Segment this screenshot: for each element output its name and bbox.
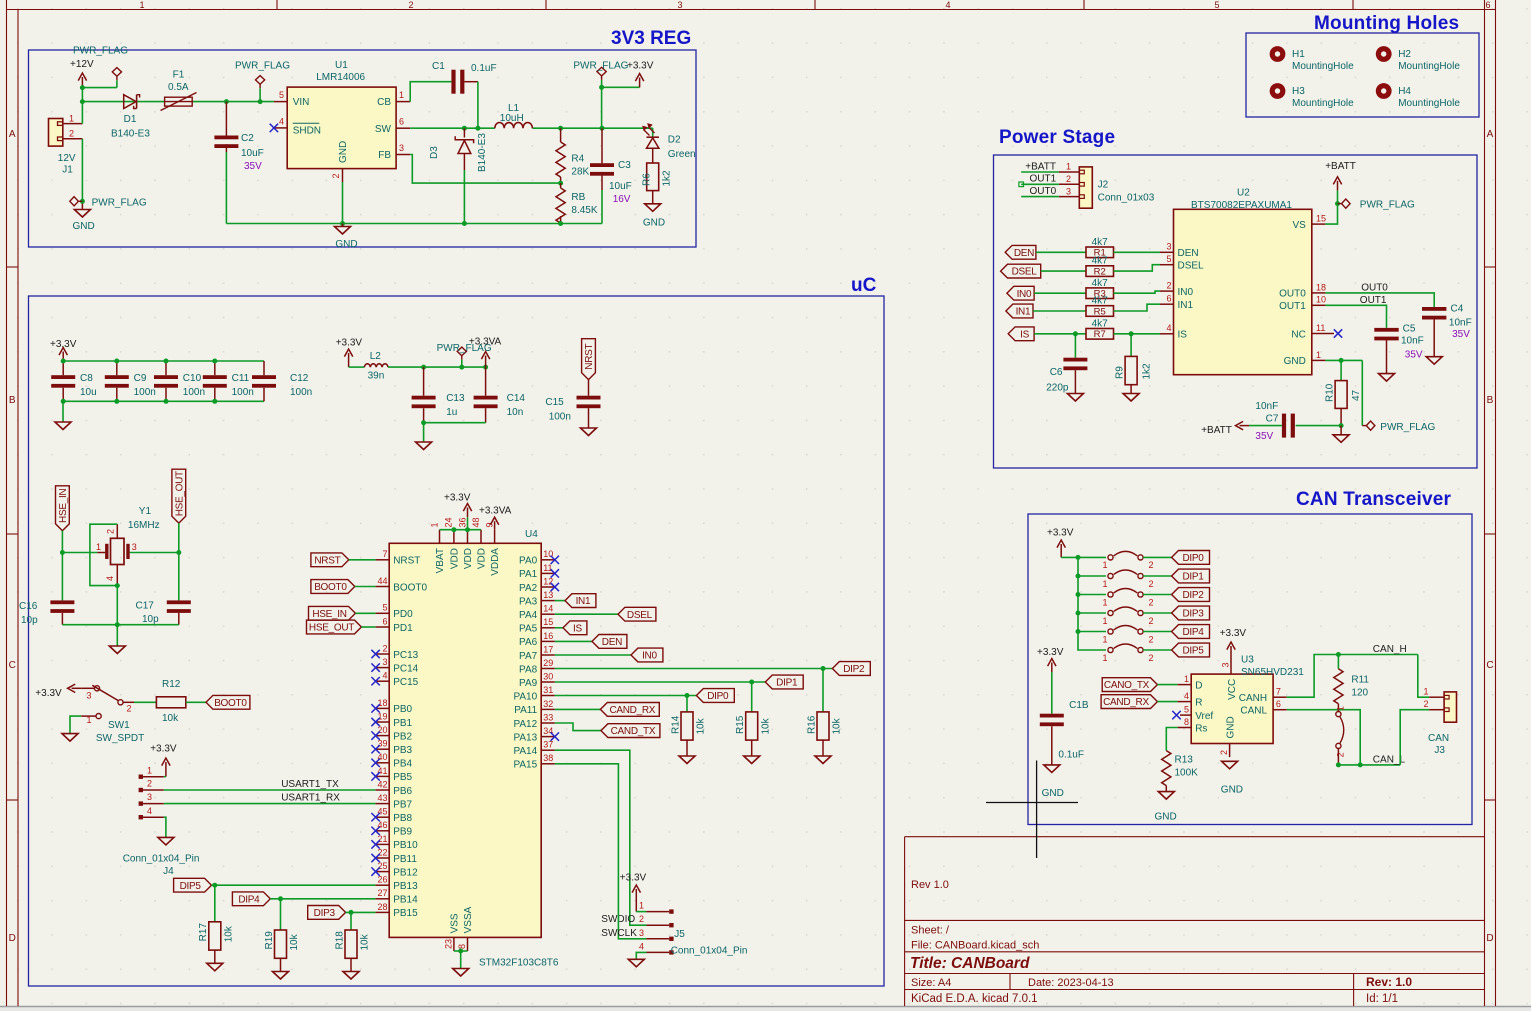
U4 pin PA13 34 [541, 736, 555, 738]
ground under R9 [1123, 394, 1139, 402]
svg-text:+3.3V: +3.3V [627, 60, 654, 71]
svg-text:BOOT0: BOOT0 [393, 582, 427, 593]
svg-text:R6: R6 [641, 173, 652, 186]
svg-text:7: 7 [1276, 687, 1281, 697]
svg-text:48: 48 [471, 517, 481, 527]
power flag PF1 [112, 68, 121, 77]
svg-text:22: 22 [377, 847, 387, 857]
hier label DIP5 [174, 878, 212, 892]
svg-text:5: 5 [1184, 704, 1189, 714]
svg-text:PA8: PA8 [519, 664, 538, 675]
svg-text:7: 7 [382, 549, 387, 559]
hier label HSE_OUT vertical [172, 469, 186, 523]
svg-text:J5: J5 [674, 929, 685, 940]
svg-text:C10: C10 [183, 373, 202, 384]
svg-text:10k: 10k [696, 717, 707, 734]
junction [458, 949, 463, 954]
svg-text:1: 1 [1102, 616, 1107, 626]
svg-text:Date: 2023-04-13: Date: 2023-04-13 [1028, 977, 1114, 989]
title block outline [904, 837, 906, 1006]
svg-text:1: 1 [69, 114, 74, 124]
junction C2 tap [224, 99, 229, 104]
U4 pin PB11 22 [376, 857, 390, 859]
wire R7 to U2 IS [1114, 333, 1161, 335]
wire to DIP3 [1143, 612, 1172, 614]
power flag PF4 [597, 67, 606, 76]
svg-text:10k: 10k [760, 717, 771, 734]
svg-text:2: 2 [1219, 750, 1229, 755]
svg-text:C1: C1 [432, 61, 445, 72]
ground under U4 [460, 951, 462, 969]
zener diode D3 [463, 128, 465, 137]
svg-text:2: 2 [1149, 597, 1154, 607]
svg-text:16MHz: 16MHz [128, 520, 160, 531]
svg-text:2: 2 [69, 129, 74, 139]
wire SW1 gnd [70, 716, 81, 734]
svg-text:USART1_TX: USART1_TX [281, 779, 339, 790]
wire L2 input [349, 366, 365, 368]
svg-text:VBAT: VBAT [435, 548, 446, 573]
svg-text:6: 6 [399, 117, 404, 127]
svg-text:FB: FB [378, 150, 391, 161]
svg-text:GND: GND [338, 141, 349, 163]
svg-text:GND: GND [1221, 784, 1243, 795]
ground under R15 [744, 756, 760, 764]
junction C3 top [600, 126, 605, 131]
svg-text:1: 1 [1423, 687, 1428, 697]
wire SW rail [410, 127, 495, 129]
junction [1335, 201, 1340, 206]
svg-text:C4: C4 [1451, 304, 1464, 315]
svg-text:2: 2 [1149, 579, 1154, 589]
hier label DIP0 [1172, 551, 1210, 565]
svg-text:HSE_IN: HSE_IN [58, 489, 69, 523]
ground under J5 [628, 959, 644, 967]
svg-text:PWR_FLAG: PWR_FLAG [92, 198, 147, 209]
wire to DIP2 [1143, 594, 1172, 596]
hier label IS [563, 621, 587, 635]
svg-text:2: 2 [1149, 560, 1154, 570]
svg-text:C1B: C1B [1069, 700, 1089, 711]
svg-text:KiCad E.D.A. kicad 7.0.1: KiCad E.D.A. kicad 7.0.1 [911, 993, 1038, 1005]
wire PA15 SWCLK [555, 764, 647, 939]
svg-text:SWCLK: SWCLK [601, 928, 637, 939]
crystal Y1 [98, 552, 106, 554]
wire dip bank bus [1061, 556, 1106, 558]
wire BOOT0 [355, 586, 376, 588]
svg-text:DIP4: DIP4 [1182, 627, 1204, 638]
svg-text:PWR_FLAG: PWR_FLAG [235, 60, 290, 71]
U4 pin PB6 42 [376, 789, 390, 791]
svg-text:5: 5 [279, 90, 284, 100]
wire R2 to U2 DSEL [1114, 265, 1161, 271]
svg-text:32: 32 [543, 699, 553, 709]
wire PA6 DEN [555, 640, 592, 642]
svg-text:17: 17 [543, 644, 553, 654]
svg-text:21: 21 [377, 834, 387, 844]
ground under R17 [207, 963, 223, 971]
svg-text:PB12: PB12 [393, 867, 418, 878]
hier label DEN [592, 635, 627, 649]
resistor R11 [1337, 655, 1339, 669]
U3 pin VCC 3 [1230, 661, 1232, 675]
U4 pin PC14 3 [376, 667, 390, 669]
junction [451, 527, 456, 532]
svg-text:R10: R10 [1324, 383, 1335, 402]
wire PA3 IN1 [555, 600, 565, 602]
svg-text:10k: 10k [832, 717, 843, 734]
hier label IS [1008, 327, 1034, 341]
svg-text:DIP4: DIP4 [238, 894, 260, 905]
junction D3 top [462, 126, 467, 131]
junction C14 [483, 365, 488, 370]
svg-text:PA7: PA7 [519, 651, 538, 662]
svg-text:PA2: PA2 [519, 583, 538, 594]
svg-text:NRST: NRST [584, 344, 595, 370]
svg-text:PB4: PB4 [393, 759, 412, 770]
svg-text:45: 45 [377, 807, 387, 817]
svg-text:40: 40 [377, 752, 387, 762]
hier label IN1 [565, 594, 596, 608]
svg-text:1: 1 [86, 715, 91, 725]
svg-text:PB9: PB9 [393, 827, 412, 838]
wire CANH to CAN_H rail [1287, 655, 1418, 698]
U4 pin PB2 20 [376, 735, 390, 737]
svg-text:2: 2 [1423, 699, 1428, 709]
svg-text:2: 2 [1149, 653, 1154, 663]
svg-text:1: 1 [1102, 579, 1107, 589]
resistor R17 [214, 885, 216, 922]
hier label DEN [1005, 245, 1036, 259]
svg-text:220p: 220p [1046, 383, 1069, 394]
svg-text:13: 13 [543, 590, 553, 600]
svg-text:BOOT0: BOOT0 [314, 582, 347, 593]
wire J2 pin2 OUT1 [1021, 183, 1059, 185]
hier label DIP0 [696, 689, 734, 703]
svg-text:BTS70082EPAXUMA1: BTS70082EPAXUMA1 [1191, 200, 1292, 211]
U3 pin R 4 [1178, 701, 1192, 703]
svg-text:Conn_01x03: Conn_01x03 [1098, 193, 1155, 204]
U4 pin PB15 28 [376, 911, 390, 913]
capacitor C8 [62, 361, 64, 375]
driver U2 BTS7008 [1174, 209, 1312, 374]
svg-text:CAND_RX: CAND_RX [1103, 697, 1149, 708]
ground under R14 [679, 756, 695, 764]
svg-text:35V: 35V [1452, 329, 1470, 340]
svg-text:IS: IS [1178, 330, 1188, 341]
U4 pin PA5 15 [541, 627, 555, 629]
svg-text:C9: C9 [134, 373, 147, 384]
junction PF5 [459, 365, 464, 370]
power flag PF3 at J1 gnd [70, 197, 79, 206]
svg-text:SW1: SW1 [108, 720, 130, 731]
svg-text:C3: C3 [618, 160, 631, 171]
capacitor C11 [214, 361, 216, 375]
svg-text:U4: U4 [525, 529, 538, 540]
hier label IN1 [1006, 304, 1033, 318]
capacitor C5 [1374, 328, 1398, 332]
U2 pin DEN 3 [1160, 251, 1174, 253]
svg-text:STM32F103C8T6: STM32F103C8T6 [479, 958, 559, 969]
svg-text:10uH: 10uH [500, 113, 524, 124]
svg-text:10k: 10k [289, 933, 300, 950]
svg-text:PC14: PC14 [393, 663, 418, 674]
wire main 12V rail [82, 101, 164, 103]
svg-text:R19: R19 [264, 931, 275, 950]
svg-text:R18: R18 [334, 931, 345, 950]
svg-text:IN0: IN0 [1017, 289, 1032, 300]
mcu U4 STM32F103C8T6 [389, 543, 541, 937]
svg-text:OUT1: OUT1 [1279, 301, 1306, 312]
svg-text:Rs: Rs [1195, 723, 1207, 734]
svg-text:4: 4 [1184, 691, 1189, 701]
U2 pin DSEL 5 [1160, 264, 1174, 266]
svg-text:R2: R2 [1094, 267, 1106, 278]
wire CAND_RX to R [1157, 701, 1177, 703]
svg-text:44: 44 [377, 576, 387, 586]
wire CANO_TX to D [1157, 684, 1177, 686]
svg-text:3: 3 [1220, 662, 1230, 667]
ground under U3 [1222, 761, 1238, 769]
svg-text:PB14: PB14 [393, 895, 418, 906]
svg-text:14: 14 [543, 604, 553, 614]
U4 pin PB12 25 [376, 871, 390, 873]
svg-text:VSS: VSS [449, 913, 460, 933]
junction C6 tap [1073, 331, 1078, 336]
U4 pin PB4 40 [376, 762, 390, 764]
hier label CAND_RX [600, 703, 659, 717]
hier label DIP1 [1172, 569, 1210, 583]
U2 pin VS 15 [1312, 223, 1326, 225]
svg-text:DIP3: DIP3 [1182, 609, 1204, 620]
U2 pin OUT1 10 [1312, 304, 1326, 306]
svg-text:100n: 100n [134, 387, 156, 398]
wire J2 pin1 +BATT [1021, 171, 1059, 173]
svg-text:PB1: PB1 [393, 718, 412, 729]
svg-text:U1: U1 [335, 60, 348, 71]
svg-text:3: 3 [1066, 186, 1071, 196]
svg-text:8: 8 [457, 944, 467, 949]
junction [1076, 611, 1081, 616]
svg-text:R9: R9 [1114, 366, 1125, 379]
svg-text:B: B [1487, 395, 1494, 406]
svg-text:PB15: PB15 [393, 908, 418, 919]
ground under C8 [62, 401, 64, 422]
switch SW DIP3 [1108, 610, 1113, 615]
wire PA4 DSEL [555, 613, 618, 615]
svg-text:H2: H2 [1398, 49, 1411, 60]
capacitor C7 [1282, 414, 1286, 438]
svg-text:HSE_IN: HSE_IN [312, 609, 346, 620]
svg-text:15: 15 [1316, 214, 1326, 224]
svg-text:PA11: PA11 [514, 705, 537, 716]
svg-text:10k: 10k [162, 713, 179, 724]
junction [61, 359, 66, 364]
svg-text:2: 2 [1335, 752, 1345, 757]
svg-text:3: 3 [639, 928, 644, 938]
svg-text:3V3 REG: 3V3 REG [611, 28, 691, 49]
power flag PF6 [1342, 199, 1351, 208]
svg-text:NC: NC [1291, 329, 1305, 340]
svg-text:2: 2 [639, 914, 644, 924]
svg-text:100K: 100K [1175, 767, 1199, 778]
junction [749, 680, 754, 685]
svg-text:10nF: 10nF [1449, 318, 1472, 329]
wire C13 C14 gnd link [424, 422, 486, 424]
junction C13 [421, 365, 426, 370]
hier label CAND_TX [601, 724, 660, 738]
svg-text:4: 4 [639, 941, 644, 951]
svg-text:3: 3 [382, 657, 387, 667]
svg-text:IS: IS [1020, 329, 1029, 340]
junction [1336, 652, 1341, 657]
U2 pin GND 1 [1312, 359, 1326, 361]
hier label HSE_OUT left [307, 620, 362, 634]
wire PA11 CAND_RX [555, 708, 601, 710]
svg-text:8: 8 [1184, 717, 1189, 727]
wire PA7 IN0 [555, 654, 631, 656]
svg-text:24: 24 [444, 517, 454, 527]
svg-text:+3.3VA: +3.3VA [479, 506, 512, 517]
resistor R9 [1130, 334, 1132, 357]
svg-text:1: 1 [139, 0, 144, 10]
svg-text:+BATT: +BATT [1025, 161, 1056, 172]
svg-text:VIN: VIN [293, 97, 310, 108]
ground under J4 [158, 837, 174, 845]
wire IS to R7 [1034, 333, 1086, 335]
svg-text:H1: H1 [1292, 49, 1305, 60]
svg-text:C14: C14 [507, 393, 526, 404]
U3 pin Vref 5 [1180, 714, 1191, 716]
svg-text:CB: CB [377, 97, 391, 108]
U1 pin SHDN 4 [274, 127, 287, 129]
hier label DIP3 [308, 906, 346, 920]
U4 top power pins [439, 530, 441, 544]
power flag PF7 [1366, 421, 1375, 430]
svg-text:C12: C12 [290, 373, 309, 384]
wire IN1 to R5 [1033, 310, 1086, 312]
svg-text:GND: GND [1284, 356, 1306, 367]
svg-text:GND: GND [643, 217, 665, 228]
svg-text:DIP5: DIP5 [1182, 646, 1204, 657]
resistor R7 [1086, 329, 1114, 340]
svg-text:3: 3 [147, 792, 152, 802]
junction [821, 666, 826, 671]
svg-text:18: 18 [1316, 282, 1326, 292]
svg-text:PA15: PA15 [513, 760, 537, 771]
svg-text:PC13: PC13 [393, 650, 418, 661]
svg-text:D: D [9, 933, 16, 944]
hier label NRST left [311, 553, 349, 567]
ground under R13 [1158, 792, 1174, 800]
svg-text:R7: R7 [1094, 329, 1106, 340]
resistor R16 [822, 669, 824, 712]
junction [421, 420, 426, 425]
svg-text:PA5: PA5 [519, 624, 538, 635]
resistor R12 [156, 697, 185, 708]
wire PA8 DIP2 [555, 668, 833, 670]
svg-text:5: 5 [1166, 254, 1171, 264]
svg-text:10k: 10k [360, 933, 371, 950]
svg-text:PD0: PD0 [393, 609, 413, 620]
svg-text:IN0: IN0 [1178, 287, 1194, 298]
mounting hole H2 [1376, 46, 1392, 62]
svg-text:GND: GND [1155, 811, 1177, 822]
wire DIP5 to port [212, 884, 376, 886]
junction [114, 399, 119, 404]
wire J1 pin2 to gnd [81, 139, 83, 202]
wire U4 vss bus [454, 950, 468, 952]
svg-text:2: 2 [106, 529, 116, 534]
svg-text:File: CANBoard.kicad_sch: File: CANBoard.kicad_sch [911, 940, 1039, 952]
svg-text:VCC: VCC [1227, 679, 1238, 700]
U4 pin PA6 16 [541, 640, 555, 642]
junction [685, 693, 690, 698]
svg-text:IS: IS [573, 623, 582, 634]
U4 pin BOOT0 44 [376, 586, 390, 588]
inductor L1 [495, 122, 533, 128]
svg-text:OUT0: OUT0 [1030, 186, 1057, 197]
svg-text:6: 6 [1485, 0, 1490, 10]
ground under C4 [1426, 357, 1442, 365]
svg-text:+3.3V: +3.3V [1037, 647, 1064, 658]
svg-text:PC15: PC15 [393, 677, 418, 688]
ground under R6 [645, 204, 661, 212]
wire ground rail 3V3 [226, 223, 602, 225]
wire U2 gnd node [1325, 359, 1362, 361]
capacitor C16 [61, 553, 63, 601]
junction [1076, 592, 1081, 597]
svg-text:R15: R15 [735, 715, 746, 734]
svg-text:23: 23 [444, 939, 454, 949]
svg-text:IN0: IN0 [642, 651, 657, 662]
svg-text:19: 19 [377, 711, 387, 721]
svg-text:Power Stage: Power Stage [999, 127, 1115, 148]
ground under C18 [1044, 765, 1060, 773]
svg-text:C: C [9, 660, 16, 671]
svg-text:D3: D3 [429, 146, 440, 159]
svg-text:10n: 10n [507, 407, 524, 418]
wire PA10 DIP0 [555, 695, 697, 697]
svg-text:OUT1: OUT1 [1030, 174, 1057, 185]
svg-text:R14: R14 [670, 715, 681, 734]
svg-text:2: 2 [147, 779, 152, 789]
svg-text:J1: J1 [62, 165, 73, 176]
svg-text:2: 2 [408, 0, 413, 10]
svg-text:2: 2 [1166, 281, 1171, 291]
svg-text:C6: C6 [1050, 367, 1063, 378]
svg-text:SN65HVD231: SN65HVD231 [1241, 667, 1304, 678]
svg-text:PA3: PA3 [519, 596, 538, 607]
capacitor C18 [1051, 672, 1053, 714]
svg-text:100n: 100n [183, 387, 205, 398]
section box Power Stage [994, 155, 1478, 468]
svg-text:Vref: Vref [1195, 711, 1213, 722]
mounting hole H1 [1270, 46, 1286, 62]
capacitor C2 [225, 102, 227, 136]
svg-text:VDDA: VDDA [490, 548, 501, 576]
svg-text:39: 39 [377, 739, 387, 749]
U4 pin PA0 10 [541, 559, 555, 561]
wire DEN to R1 [1036, 251, 1086, 253]
svg-text:A: A [1487, 129, 1494, 140]
wire PA14 SWDIO [555, 750, 647, 925]
section box Mounting Holes [1246, 33, 1479, 117]
U4 pin PD1 6 [376, 626, 390, 628]
svg-text:HSE_OUT: HSE_OUT [174, 471, 185, 516]
wire J5 pin1 power [636, 911, 646, 913]
svg-text:4: 4 [147, 806, 152, 816]
